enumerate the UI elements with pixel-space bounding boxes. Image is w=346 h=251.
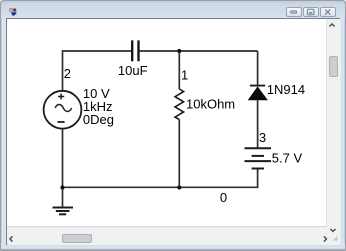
window corner shading top-right [340,0,346,6]
wire source bottom [62,129,64,188]
vertical scrollbar thumb [329,56,338,77]
AC source V1 circle [44,91,82,129]
wire resistor branch bottom [178,120,180,188]
junction dot bottom left [60,185,64,189]
titlebar icon [9,7,19,17]
AC source sine wave [55,105,71,112]
battery V2 long plate mid [245,160,272,162]
diode D1 cathode bar [250,85,265,87]
wire battery bottom to bottom bus [63,169,258,188]
wire top right segment (capacitor to diode branch) [140,50,258,52]
diode D1 triangle [248,86,268,100]
junction dot bottom resistor [177,185,181,189]
restore button [303,7,319,17]
battery V2 short plate bottom [252,168,264,170]
scrollbar right arrow [321,233,331,245]
ground symbol [53,208,74,215]
scrollbar left arrow [7,233,17,245]
ground stub [62,187,64,207]
capacitor C1 plates [132,40,138,61]
wire diode branch top (top wire down to diode cathode) [257,51,259,86]
junction dot node 1 top [177,49,181,53]
minimize button [286,7,302,17]
scrollbar down arrow [327,226,339,236]
horizontal scrollbar thumb [62,234,93,243]
window corner shading top-left [0,0,6,6]
wire resistor branch top [178,51,180,89]
battery V2 short plate [252,155,264,157]
close button [320,7,336,17]
battery V2 long plate top [245,147,272,149]
resize grip [332,235,340,243]
wire top left segment (source top to capacitor) [63,51,132,91]
AC source minus sign [57,121,64,123]
wire diode to battery (node 3) [257,100,259,148]
resistor R1 zigzag [175,89,184,120]
AC source plus sign [58,94,64,100]
scrollbar up arrow [326,21,338,31]
